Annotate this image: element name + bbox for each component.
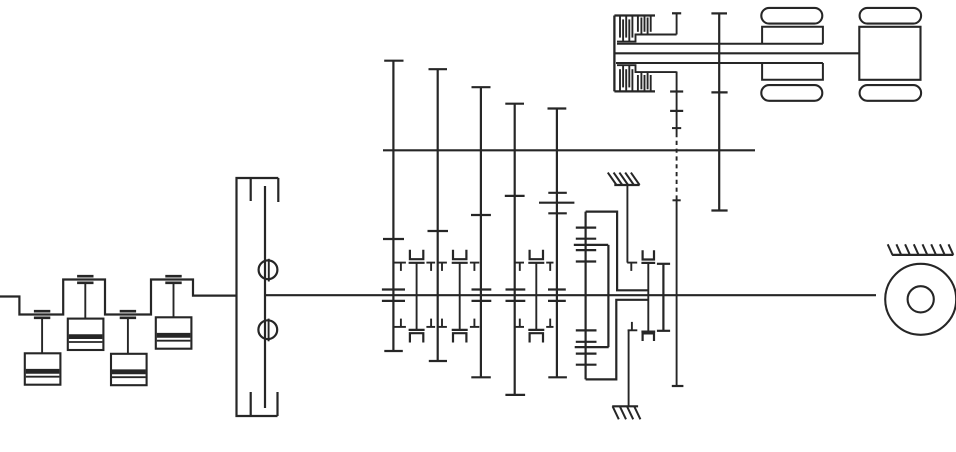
gear G4 hub bars (506, 290, 526, 301)
claw at G2 left upper (426, 263, 435, 271)
coupling tick 2 (672, 127, 681, 129)
gear G6 shaft line (662, 264, 664, 331)
axle line upper (617, 43, 823, 45)
gear G7 top rim (711, 12, 727, 14)
pto shaft end rim (672, 385, 684, 387)
flywheel housing (237, 178, 279, 416)
brake claw bottom (628, 322, 638, 330)
claw at G5 left upper (546, 263, 553, 271)
claw at G4 right upper (515, 263, 524, 271)
gear G4 mesh bar (505, 195, 525, 197)
claw at G1 right upper (394, 263, 406, 271)
synchronizer S3 (528, 250, 544, 343)
clutch hub line (607, 245, 609, 347)
countershaft (383, 149, 755, 151)
gear G5 upper mesh bar (548, 192, 567, 194)
gear G2 bottom rim (429, 360, 447, 362)
clutch hub plate upper (574, 244, 608, 246)
damper shaft (264, 186, 266, 408)
frame ground top (608, 173, 640, 185)
gear G2 shaft line (437, 69, 439, 361)
claw at G3 left upper (470, 263, 479, 271)
clutch drum bottom arm (586, 300, 649, 380)
gear G1 bottom rim (384, 350, 403, 352)
pto shaft solid upper (676, 92, 678, 134)
clutch output lower link (670, 72, 683, 92)
clutch pack lower hub (617, 65, 677, 72)
gear G5 top rim (548, 107, 567, 109)
gear G3 hub bars (472, 290, 492, 301)
clutch plate upper 3 (576, 249, 596, 251)
final drive wheel (885, 264, 956, 335)
final drive hub (908, 286, 934, 312)
claw at G1 right lower (394, 319, 406, 327)
clutch pack left edge (613, 16, 615, 92)
gear G7 bottom rim (711, 209, 727, 211)
claw at G4 right lower (515, 319, 524, 327)
damper element upper (259, 259, 278, 282)
gear G5 bottom rim (548, 376, 567, 378)
gear G6 top rim (657, 263, 670, 265)
rear axle box (859, 27, 920, 80)
clutch output upper T (672, 13, 681, 34)
synchronizer S1 (409, 250, 425, 343)
brake link top (626, 185, 628, 263)
claw at G2 right lower (438, 319, 447, 327)
clutch plate lower 3 (576, 353, 597, 355)
brake link bottom (628, 330, 630, 406)
piston P3 (111, 311, 147, 385)
front hub lower (762, 63, 823, 80)
synchronizer S4 (641, 250, 655, 341)
clutch pack upper hub (617, 35, 677, 42)
front hub upper (762, 27, 823, 44)
gear G6 bottom rim (657, 330, 670, 332)
claw at G2 right upper (438, 263, 447, 271)
gear G5 lower mesh bar (548, 212, 567, 214)
clutch drum top arm (586, 212, 649, 291)
piston P1 (25, 311, 61, 384)
gear G3 bottom rim (471, 376, 491, 378)
clutch plate upper 2 (576, 238, 596, 240)
gear G4 bottom rim (505, 394, 525, 396)
gear G4 top rim (505, 103, 524, 105)
piston P4 (156, 276, 192, 348)
gear G5 hub bars (548, 290, 566, 301)
clutch plate upper 1 (576, 227, 596, 229)
clutch drum left leg (584, 212, 586, 380)
pto shaft dashed (676, 133, 678, 200)
gear G2 mesh bar (428, 230, 449, 232)
clutch hub plate lower (575, 346, 609, 348)
axle line lower (616, 62, 823, 64)
damper element lower (258, 319, 277, 342)
claw at G2 left lower (426, 319, 435, 327)
frame ground bottom (612, 406, 640, 419)
claw at G3 left lower (470, 319, 479, 327)
gear G7 shaft line (718, 13, 720, 210)
front tire lower (761, 85, 822, 101)
gear G3 mesh bar (471, 214, 491, 216)
crankshaft (0, 280, 237, 315)
gear G4 shaft line (514, 104, 516, 395)
main shaft (266, 294, 876, 296)
clutch pack upper plates (620, 16, 651, 42)
gear G2 top rim (429, 68, 448, 70)
claw at G5 left lower (546, 319, 553, 327)
clutch pack bottom edge (614, 90, 655, 92)
coupling tick 3 (673, 199, 681, 201)
gear G1 hub bars (382, 290, 405, 301)
clutch plate upper 4 (576, 260, 596, 262)
clutch plate lower 4 (576, 364, 597, 366)
gear G5 wide mesh bar (539, 202, 574, 204)
gear G5 shaft line (556, 109, 558, 378)
rear tire upper (860, 8, 922, 24)
rear tire lower (860, 85, 922, 101)
synchronizer S2 (452, 250, 468, 343)
gear G3 shaft line (480, 87, 482, 377)
clutch pack lower plates (620, 65, 651, 91)
front tire upper (761, 8, 822, 24)
coupling tick 1 (670, 110, 683, 112)
gear G1 mesh bar (383, 238, 404, 240)
output shaft (614, 52, 859, 54)
brake claw top (627, 263, 637, 271)
piston P2 (68, 276, 104, 350)
clutch pack top edge (614, 14, 655, 16)
gear G3 top rim (472, 86, 491, 88)
pto shaft lower (676, 200, 678, 386)
frame ground right (888, 244, 954, 255)
gear G1 shaft line (392, 61, 394, 351)
gear G1 top rim (384, 60, 403, 62)
clutch plate lower 2 (576, 341, 597, 343)
clutch plate lower 1 (576, 329, 597, 331)
gear G7 mesh bar (711, 91, 727, 93)
